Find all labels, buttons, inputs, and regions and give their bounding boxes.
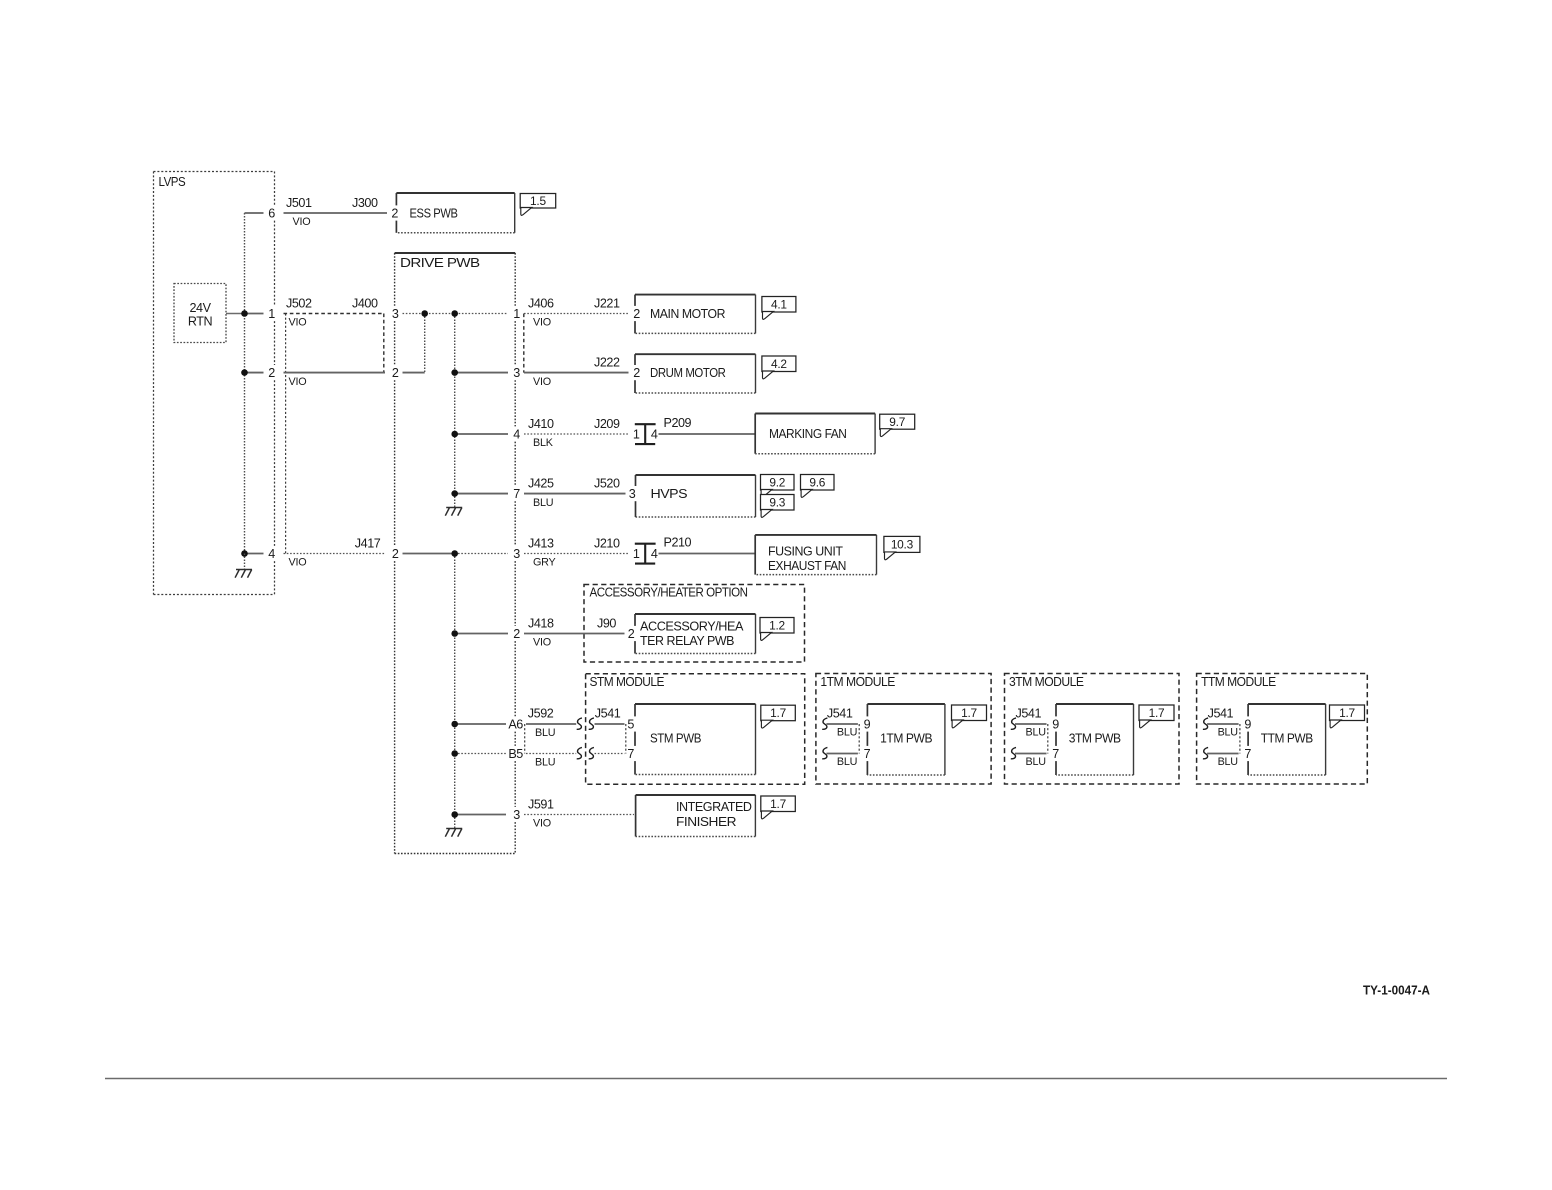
INTEGRATED FINISHER box xyxy=(636,794,756,796)
connector hook J541 TTM upper xyxy=(1203,718,1208,729)
wire J502-2 to J400-2 xyxy=(284,372,386,374)
svg-text:MARKING FAN: MARKING FAN xyxy=(769,427,847,441)
svg-text:9.7: 9.7 xyxy=(889,415,905,429)
wire internal to pin2 accessory xyxy=(455,633,508,635)
svg-text:ACCESSORY/HEA: ACCESSORY/HEA xyxy=(640,619,744,633)
ESS PWB box xyxy=(396,192,514,194)
callout 1.5 xyxy=(520,194,556,216)
svg-text:7: 7 xyxy=(1052,747,1059,761)
wire P210 to FUSING UNIT EXHAUST FAN xyxy=(659,553,756,555)
svg-text:4.2: 4.2 xyxy=(771,357,787,371)
callout 1.7 3TM xyxy=(1139,705,1174,728)
wire bus to pin 4 xyxy=(245,553,264,555)
wire J541 1TM pin9 xyxy=(826,723,858,725)
svg-text:1.7: 1.7 xyxy=(770,706,786,720)
callout 1.7 finisher xyxy=(761,796,796,819)
callout 1.2 xyxy=(760,618,794,641)
wire bus to pin 1 xyxy=(245,313,264,315)
junction V2 A6 row xyxy=(451,721,458,728)
callout 10.3 xyxy=(884,536,920,559)
LVPS 24V bus wire xyxy=(244,213,246,554)
svg-text:1.7: 1.7 xyxy=(770,797,786,811)
svg-text:ESS PWB: ESS PWB xyxy=(410,207,458,221)
svg-text:BLU: BLU xyxy=(1218,756,1238,768)
wire J541 TTM pin7 xyxy=(1207,753,1239,755)
svg-text:3: 3 xyxy=(513,808,520,822)
svg-text:BLU: BLU xyxy=(837,727,857,739)
svg-text:VIO: VIO xyxy=(533,376,551,388)
STM PWB box xyxy=(635,703,756,705)
svg-text:J210: J210 xyxy=(594,536,620,550)
wire internal to pin3 right xyxy=(455,372,508,374)
svg-text:9: 9 xyxy=(864,718,871,732)
svg-text:1: 1 xyxy=(268,307,275,321)
junction V2 fusing row xyxy=(451,550,458,557)
svg-text:DRUM MOTOR: DRUM MOTOR xyxy=(650,366,726,380)
wire J541 3TM pin7 xyxy=(1015,753,1047,755)
svg-text:1: 1 xyxy=(633,547,640,561)
svg-text:4: 4 xyxy=(268,547,275,561)
svg-text:2: 2 xyxy=(628,627,635,641)
ground drive lower xyxy=(445,829,462,837)
svg-text:1.7: 1.7 xyxy=(1149,706,1165,720)
MAIN MOTOR box xyxy=(635,294,756,296)
svg-text:24V: 24V xyxy=(189,301,211,315)
svg-text:FUSING UNIT: FUSING UNIT xyxy=(768,545,843,559)
svg-text:VIO: VIO xyxy=(289,317,307,329)
wire J413-J210 (dashed) xyxy=(524,553,630,555)
1TM PWB box xyxy=(867,703,945,705)
wire J418-J90 to relay PWB xyxy=(524,633,625,635)
ground LVPS xyxy=(235,570,252,578)
wire J417 pin4 to drive pin2 xyxy=(284,553,386,555)
svg-text:LVPS: LVPS xyxy=(159,174,186,189)
svg-text:STM PWB: STM PWB xyxy=(650,732,701,746)
callout 9.7 xyxy=(880,414,915,436)
footer rule xyxy=(105,1078,1447,1080)
svg-text:1TM PWB: 1TM PWB xyxy=(880,732,932,746)
junction V2 B5 row xyxy=(451,750,458,757)
svg-text:9: 9 xyxy=(1052,718,1059,732)
svg-text:P209: P209 xyxy=(664,416,692,430)
svg-text:VIO: VIO xyxy=(293,216,311,228)
callout 1.7 STM xyxy=(761,705,796,728)
svg-text:2: 2 xyxy=(392,547,399,561)
svg-text:J222: J222 xyxy=(594,355,620,369)
svg-text:TTM PWB: TTM PWB xyxy=(1261,732,1313,746)
svg-text:1.2: 1.2 xyxy=(769,618,785,632)
svg-text:J591: J591 xyxy=(528,797,554,811)
svg-text:1: 1 xyxy=(633,428,640,442)
callout 1.7 TTM xyxy=(1330,705,1365,728)
3TM MODULE box xyxy=(1005,674,1180,785)
svg-text:J410: J410 xyxy=(528,417,554,431)
wire J541 to STM PWB pin7 (dashed) xyxy=(595,753,625,755)
STM MODULE box xyxy=(586,674,805,785)
harness box J541 3TM edge xyxy=(1047,724,1049,754)
svg-text:9.3: 9.3 xyxy=(769,495,785,509)
svg-text:2: 2 xyxy=(391,207,398,221)
wire internal to pin7 right xyxy=(455,493,508,495)
junction bus pin2 xyxy=(241,369,248,376)
ACCESSORY/HEATER RELAY PWB box xyxy=(635,613,756,615)
callout 9.2 xyxy=(761,475,795,498)
svg-text:P210: P210 xyxy=(664,536,692,550)
DRUM MOTOR box xyxy=(635,353,756,355)
LVPS enclosure box xyxy=(154,172,275,595)
24V RTN source box xyxy=(174,284,226,343)
connector hook J541 1TM upper xyxy=(822,718,827,729)
wire J222 to DRUM MOTOR xyxy=(524,372,629,374)
svg-text:2: 2 xyxy=(513,627,520,641)
junction V2 row1 xyxy=(451,310,458,317)
callout 4.1 xyxy=(762,297,796,320)
wire J410-J209 (dashed) xyxy=(524,433,630,435)
svg-text:1TM MODULE: 1TM MODULE xyxy=(820,674,895,689)
junction V1 top xyxy=(421,310,428,317)
wire internal to pin B5 xyxy=(455,753,506,755)
svg-text:J209: J209 xyxy=(594,417,620,431)
svg-text:J541: J541 xyxy=(595,707,621,721)
MARKING FAN box xyxy=(755,413,875,415)
junction bus pin4 xyxy=(241,550,248,557)
wire 24V RTN to bus xyxy=(226,313,245,315)
svg-text:2: 2 xyxy=(633,366,640,380)
svg-text:VIO: VIO xyxy=(289,376,307,388)
svg-text:3: 3 xyxy=(513,366,520,380)
harness box J406-J222 edge xyxy=(523,314,525,373)
drive internal vertical V2 upper xyxy=(454,314,456,508)
svg-text:HVPS: HVPS xyxy=(651,487,688,501)
DRIVE PWB box xyxy=(395,253,516,854)
svg-text:5: 5 xyxy=(627,718,634,732)
callout 1.7 1TM xyxy=(952,705,987,728)
wire drive pin2 lower to pin3 right xyxy=(403,553,455,555)
wire internal to pin4 right xyxy=(455,433,508,435)
inline connector J209/P209 xyxy=(635,424,656,444)
svg-text:3: 3 xyxy=(513,547,520,561)
ACCESSORY/HEATER RELAY PWB label xyxy=(640,619,744,648)
3TM PWB box xyxy=(1056,703,1134,705)
junction V2 row4 xyxy=(451,431,458,438)
callout 4.2 xyxy=(762,356,796,379)
wire P209 to MARKING FAN xyxy=(659,433,756,435)
connector hook J541 1TM lower xyxy=(822,747,827,758)
svg-text:J501: J501 xyxy=(286,196,312,210)
svg-text:7: 7 xyxy=(864,747,871,761)
svg-text:7: 7 xyxy=(627,747,634,761)
svg-text:RTN: RTN xyxy=(188,314,213,328)
drive internal vertical V1 xyxy=(424,314,426,373)
ground drive upper xyxy=(445,508,462,516)
svg-text:4: 4 xyxy=(651,428,658,442)
svg-text:10.3: 10.3 xyxy=(891,538,914,552)
wire J591 to INTEGRATED FINISHER (dashed) xyxy=(524,814,634,816)
svg-text:J520: J520 xyxy=(594,476,620,490)
svg-text:J406: J406 xyxy=(528,296,554,310)
FUSING UNIT EXHAUST FAN box xyxy=(755,534,876,536)
svg-text:VIO: VIO xyxy=(533,637,551,649)
svg-text:STM MODULE: STM MODULE xyxy=(590,674,665,689)
svg-text:6: 6 xyxy=(268,207,275,221)
harness box J502-J400 left edge xyxy=(285,314,287,554)
svg-text:VIO: VIO xyxy=(533,317,551,329)
connector hook J541 3TM upper xyxy=(1011,718,1016,729)
svg-text:J541: J541 xyxy=(1208,707,1234,721)
svg-text:J418: J418 xyxy=(528,616,554,630)
INTEGRATED FINISHER label xyxy=(676,800,752,829)
svg-text:1: 1 xyxy=(513,307,520,321)
svg-text:B5: B5 xyxy=(508,747,523,761)
svg-text:J90: J90 xyxy=(597,616,616,630)
svg-text:1.7: 1.7 xyxy=(961,706,977,720)
wire J501-J300 to ESS PWB xyxy=(284,212,388,214)
junction bus pin1 xyxy=(241,310,248,317)
junction V2 row3 xyxy=(451,369,458,376)
svg-text:4: 4 xyxy=(513,428,520,442)
svg-text:BLU: BLU xyxy=(1026,756,1046,768)
wire J541 1TM pin7 xyxy=(826,753,858,755)
ACCESSORY/HEATER OPTION module box xyxy=(584,585,805,663)
HVPS box xyxy=(636,474,756,476)
svg-text:TER RELAY PWB: TER RELAY PWB xyxy=(640,634,734,648)
harness box J541 right edge xyxy=(625,724,627,754)
connector hooks J592/J541 upper xyxy=(577,718,594,729)
svg-text:A6: A6 xyxy=(508,718,523,732)
wire A6 J592 upper xyxy=(526,723,576,725)
LVPS bus ground stub xyxy=(244,554,246,570)
drive internal vertical V2 lower xyxy=(454,554,456,829)
svg-text:GRY: GRY xyxy=(533,557,556,569)
svg-text:MAIN MOTOR: MAIN MOTOR xyxy=(650,307,725,321)
svg-text:4.1: 4.1 xyxy=(771,297,787,311)
svg-text:J413: J413 xyxy=(528,536,554,550)
svg-text:2: 2 xyxy=(268,366,275,380)
svg-text:J502: J502 xyxy=(286,296,312,310)
svg-text:7: 7 xyxy=(1244,747,1251,761)
svg-text:9.2: 9.2 xyxy=(769,475,785,489)
wire J406-J221 to MAIN MOTOR xyxy=(524,313,629,315)
svg-text:VIO: VIO xyxy=(289,557,307,569)
svg-text:TY-1-0047-A: TY-1-0047-A xyxy=(1363,984,1430,998)
svg-text:J221: J221 xyxy=(594,296,620,310)
svg-text:J300: J300 xyxy=(352,196,378,210)
callout 9.3 xyxy=(761,495,795,518)
harness box J541 1TM edge xyxy=(858,724,860,754)
1TM MODULE box xyxy=(816,674,991,785)
svg-text:BLU: BLU xyxy=(535,757,555,769)
junction V2 finisher row xyxy=(451,811,458,818)
svg-text:J541: J541 xyxy=(1016,707,1042,721)
svg-text:INTEGRATED: INTEGRATED xyxy=(676,800,752,814)
24V RTN label xyxy=(188,301,213,329)
svg-text:3: 3 xyxy=(392,307,399,321)
svg-text:J425: J425 xyxy=(528,476,554,490)
harness box J592 left edge xyxy=(524,724,526,754)
svg-text:FINISHER: FINISHER xyxy=(676,815,736,829)
TTM MODULE box xyxy=(1197,674,1368,785)
connector hook J541 3TM lower xyxy=(1011,747,1016,758)
wire J541 3TM pin9 xyxy=(1015,723,1047,725)
svg-text:BLU: BLU xyxy=(533,497,553,509)
junction V2 accessory row xyxy=(451,630,458,637)
TTM PWB box xyxy=(1248,703,1326,705)
svg-text:J417: J417 xyxy=(355,536,381,550)
svg-text:DRIVE PWB: DRIVE PWB xyxy=(400,255,480,270)
junction V2 row7 xyxy=(451,490,458,497)
FUSING UNIT EXHAUST FAN label xyxy=(768,545,846,574)
svg-text:J592: J592 xyxy=(528,707,554,721)
svg-text:1.5: 1.5 xyxy=(530,194,546,208)
svg-text:9.6: 9.6 xyxy=(809,475,825,489)
svg-text:2: 2 xyxy=(633,307,640,321)
wire J541 to STM PWB pin5 xyxy=(595,723,625,725)
wire drive pin2 internal xyxy=(403,372,425,374)
svg-text:4: 4 xyxy=(651,547,658,561)
svg-text:BLU: BLU xyxy=(535,727,555,739)
svg-text:3TM PWB: 3TM PWB xyxy=(1069,732,1121,746)
wire bus to pin 2 xyxy=(245,372,264,374)
inline connector J210/P210 xyxy=(635,544,656,564)
svg-text:7: 7 xyxy=(513,487,520,501)
svg-text:ACCESSORY/HEATER OPTION: ACCESSORY/HEATER OPTION xyxy=(590,585,748,600)
wire bus corner to pin 6 xyxy=(245,212,264,214)
svg-text:3TM MODULE: 3TM MODULE xyxy=(1009,674,1084,689)
wire B5 J592 lower (dashed) xyxy=(526,753,576,755)
harness box J502-J400 right edge xyxy=(383,314,385,373)
svg-text:BLU: BLU xyxy=(837,756,857,768)
harness box J541 TTM edge xyxy=(1239,724,1241,754)
svg-text:BLU: BLU xyxy=(1026,727,1046,739)
callout 9.6 xyxy=(801,475,835,498)
wire internal to pin 3 finisher xyxy=(455,814,506,816)
wire J502-1 to J400-3 (dashed) xyxy=(284,313,384,315)
svg-text:EXHAUST FAN: EXHAUST FAN xyxy=(768,559,846,573)
svg-text:BLU: BLU xyxy=(1218,727,1238,739)
svg-text:1.7: 1.7 xyxy=(1339,706,1355,720)
wire internal to pin A6 xyxy=(455,723,506,725)
connector hooks J592/J541 lower xyxy=(577,747,594,758)
svg-text:2: 2 xyxy=(392,366,399,380)
wire J541 TTM pin9 xyxy=(1207,723,1239,725)
svg-text:TTM MODULE: TTM MODULE xyxy=(1201,674,1276,689)
wire J425-J520 to HVPS xyxy=(524,493,626,495)
svg-text:J541: J541 xyxy=(827,707,853,721)
svg-text:BLK: BLK xyxy=(533,437,554,449)
connector hook J541 TTM lower xyxy=(1203,747,1208,758)
wire drive pin3 to pin1 internal xyxy=(403,313,509,315)
svg-text:3: 3 xyxy=(629,487,636,501)
svg-text:VIO: VIO xyxy=(533,818,551,830)
svg-text:J400: J400 xyxy=(352,296,378,310)
svg-text:9: 9 xyxy=(1244,718,1251,732)
